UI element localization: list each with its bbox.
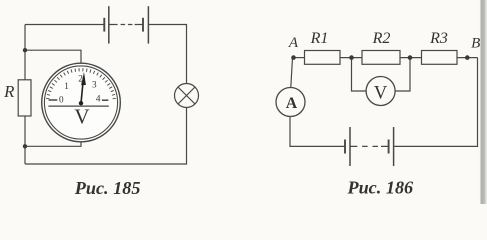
svg-text:Рис. 186: Рис. 186 xyxy=(346,177,414,197)
lamp X stroke 2 xyxy=(178,87,195,104)
wire below resistor xyxy=(24,116,26,164)
voltmeter scale numbers xyxy=(59,73,101,104)
resistor R1 body xyxy=(305,51,341,65)
dashed link wire between cells xyxy=(109,24,143,26)
junction dot bottom-left xyxy=(23,144,27,148)
node dot R1-R2 xyxy=(349,55,354,60)
voltmeter scale left end mark xyxy=(49,99,58,101)
right circuit: wire A to R1 xyxy=(294,57,305,59)
voltmeter scale baseline xyxy=(48,105,108,107)
voltmeter pivot dot xyxy=(79,101,83,105)
left vertical wire top xyxy=(24,25,26,81)
top wire right segment xyxy=(148,25,186,84)
node B dot xyxy=(465,55,470,60)
voltmeter inner rim xyxy=(44,66,117,139)
resistor R body xyxy=(18,80,31,116)
svg-text:4: 4 xyxy=(96,93,101,103)
voltmeter branch left xyxy=(352,58,367,91)
svg-text:Рис. 185: Рис. 185 xyxy=(74,178,141,198)
svg-text:0: 0 xyxy=(59,94,64,104)
svg-text:1: 1 xyxy=(64,81,69,91)
battery cell 1 long plate xyxy=(108,6,110,43)
svg-text:A: A xyxy=(288,35,299,51)
voltmeter V2 circle xyxy=(366,77,395,106)
voltmeter branch right xyxy=(395,58,410,91)
battery cell 1 short plate xyxy=(103,18,105,32)
svg-text:R: R xyxy=(3,82,14,101)
right side vertical wire xyxy=(394,58,478,147)
battery cell 1 short plate (bottom) xyxy=(344,140,346,154)
voltmeter U1 outer rim xyxy=(42,63,121,142)
battery cell 2 long plate xyxy=(147,6,149,43)
ammeter circle xyxy=(276,88,305,117)
wire R1 to node xyxy=(340,57,362,59)
lamp HL circle xyxy=(175,84,199,108)
resistor R3 body xyxy=(422,51,458,65)
svg-text:V: V xyxy=(74,104,89,128)
voltmeter scale ticks xyxy=(46,68,116,99)
battery cell 2 short plate xyxy=(142,18,144,32)
battery cell 2 short plate (bottom) xyxy=(388,140,390,154)
wire A node to ammeter xyxy=(291,58,293,88)
resistor R2 body xyxy=(362,51,400,65)
left circuit: top wire left segment xyxy=(25,24,104,26)
battery cell 2 long plate (bottom) xyxy=(393,127,395,166)
svg-text:R2: R2 xyxy=(372,30,391,47)
node A dot xyxy=(291,55,296,60)
node dot R2-R3 xyxy=(408,55,413,60)
branch wire from voltmeter bottom xyxy=(25,142,81,147)
voltmeter scale right end mark xyxy=(102,99,109,101)
voltmeter needle shaft xyxy=(81,85,83,104)
wire R3 to B corner xyxy=(457,57,478,59)
svg-text:A: A xyxy=(286,95,298,112)
branch wire to voltmeter top xyxy=(25,50,81,63)
svg-text:V: V xyxy=(374,83,388,103)
svg-text:R1: R1 xyxy=(310,30,329,47)
dashed link between bottom cells xyxy=(350,145,389,147)
battery cell 1 long plate (bottom) xyxy=(349,127,351,166)
svg-text:3: 3 xyxy=(92,79,97,89)
lamp X stroke 1 xyxy=(178,87,195,104)
bottom wire to ammeter xyxy=(290,117,345,147)
svg-text:B: B xyxy=(471,36,480,52)
right wire below lamp xyxy=(25,108,187,165)
svg-text:R3: R3 xyxy=(429,30,448,47)
junction dot top-left xyxy=(23,48,27,52)
voltmeter needle arrowhead xyxy=(81,72,86,85)
wire R2 to node xyxy=(400,57,422,59)
